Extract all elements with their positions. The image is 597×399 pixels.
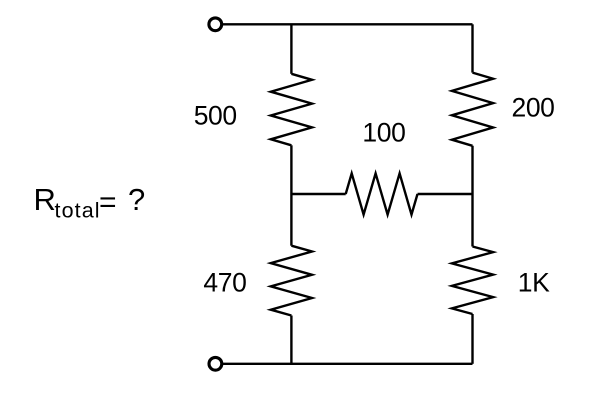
- svg-text:470: 470: [203, 267, 246, 297]
- svg-text:200: 200: [511, 92, 554, 122]
- resistor R 100 (bridge): [346, 173, 418, 214]
- svg-text:R: R: [34, 182, 56, 217]
- svg-text:100: 100: [362, 117, 405, 147]
- terminal T2 (bottom-left open circle): [209, 357, 222, 370]
- terminal T1 (top-left open circle): [209, 18, 222, 31]
- wire left branch lower (node A to R470): [290, 194, 292, 246]
- wire left branch middle (R500 to node A): [290, 145, 292, 194]
- resistor R 200: [452, 73, 493, 146]
- wire bottom (T2 to bottom-right corner): [223, 363, 473, 365]
- svg-text:=: =: [99, 186, 117, 219]
- svg-text:?: ?: [128, 182, 145, 217]
- svg-text:1K: 1K: [518, 267, 550, 297]
- wire right branch middle (R200 to node B): [471, 146, 473, 247]
- wire top (T1 to top-right corner): [223, 23, 473, 25]
- wire right branch upper (top wire to R200): [471, 24, 473, 72]
- wire left branch bottom (R470 to bottom wire): [290, 316, 292, 364]
- resistor R 1K: [452, 247, 493, 315]
- resistor R 500: [271, 74, 312, 146]
- svg-text:total: total: [55, 199, 101, 223]
- wire right branch bottom (R1K to bottom-right corner): [471, 314, 473, 364]
- wire left branch upper (top wire to R500): [290, 24, 292, 74]
- svg-text:500: 500: [194, 101, 237, 131]
- resistor R 470: [271, 246, 312, 316]
- wire R100 to node B: [418, 193, 473, 195]
- wire node A to R100: [291, 193, 345, 195]
